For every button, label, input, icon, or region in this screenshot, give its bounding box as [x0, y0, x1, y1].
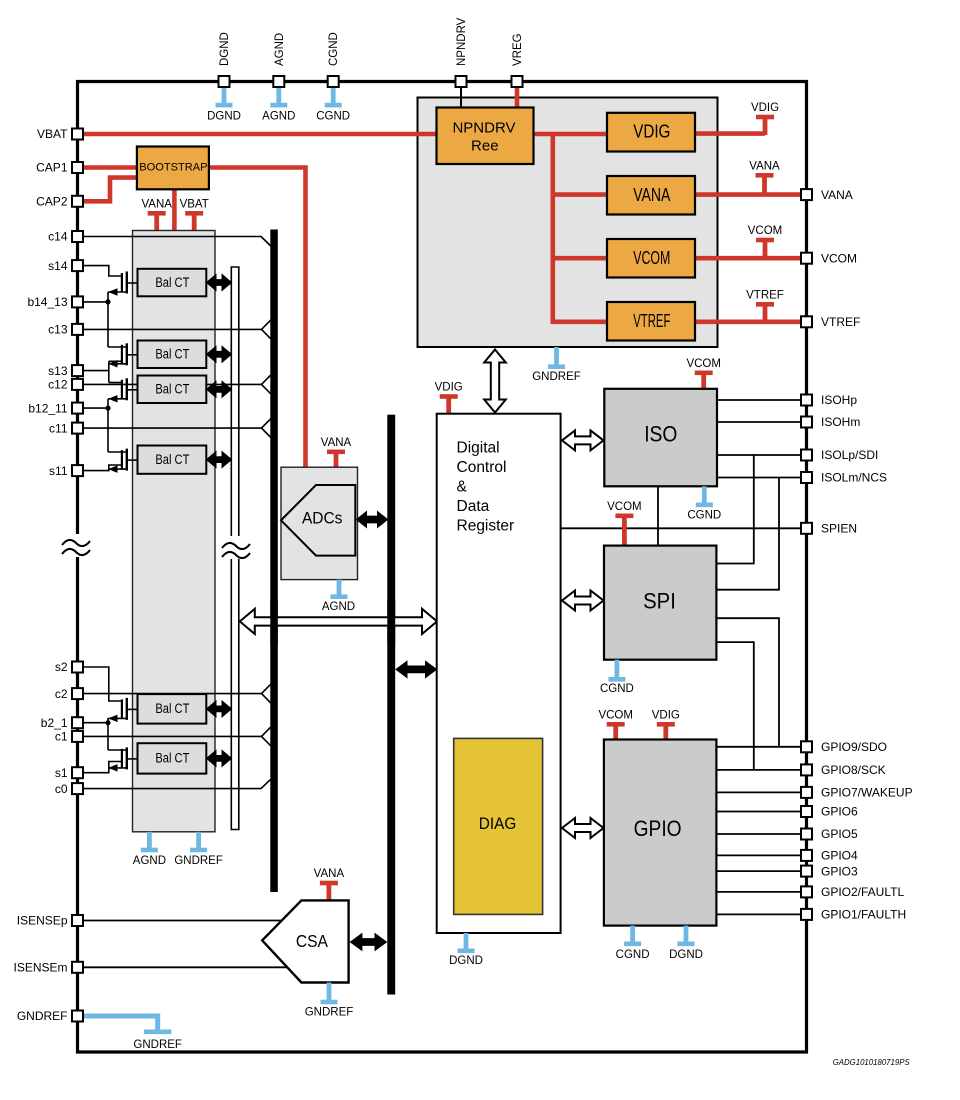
wire GPIO to GPIO9/SDO	[716, 746, 802, 748]
svg-text:DIAG: DIAG	[479, 815, 517, 833]
supply VANA rail symbol	[756, 173, 774, 196]
wire ISOLm/NCS to SPI	[717, 478, 779, 590]
mux column rectangle	[231, 267, 239, 830]
svg-text:ISENSEm: ISENSEm	[13, 961, 67, 975]
pin s14 (left)	[72, 260, 83, 271]
svg-text:DGND: DGND	[219, 32, 231, 66]
wire c11 to bus	[84, 427, 262, 429]
wire SPIEN to digital control	[561, 527, 802, 529]
block CSA	[262, 900, 348, 982]
digital bus bar over arrow	[387, 600, 395, 645]
ground AGND below cell block	[141, 832, 158, 853]
svg-text:Bal CT: Bal CT	[155, 701, 189, 716]
svg-text:DGND: DGND	[207, 111, 241, 123]
svg-text:VCOM: VCOM	[633, 248, 670, 268]
wire trunk branch to VTREF regulator	[551, 319, 608, 324]
wire SPI to GPIO8/SCK	[716, 642, 753, 770]
pin s1 (left)	[72, 767, 83, 778]
pin CGND (top)	[328, 76, 339, 87]
wire GPIO to GPIO4	[716, 854, 802, 856]
wire ISO to ISOHp	[717, 399, 802, 401]
svg-text:VREG: VREG	[512, 33, 524, 66]
block ISO	[604, 389, 717, 487]
pin VTREF (right)	[801, 316, 812, 327]
svg-text:c12: c12	[48, 378, 68, 392]
svg-text:GPIO6: GPIO6	[821, 805, 858, 819]
ground CGND below GPIO	[624, 926, 641, 947]
pin GPIO4 (right)	[801, 850, 812, 861]
wire s11 to Q4 gate	[84, 465, 122, 471]
arrow regulator to digital control	[484, 350, 506, 413]
wire b12_11 to Q4	[108, 451, 127, 453]
svg-text:ISOHm: ISOHm	[821, 415, 860, 429]
wire GPIO to GPIO2/FAULTL	[716, 891, 802, 893]
regulator VANA	[607, 176, 695, 215]
supply VCOM rail symbol	[756, 238, 774, 260]
wire VTREF regulator to VTREF pin	[695, 319, 802, 324]
svg-text:NPNDRV: NPNDRV	[452, 119, 515, 136]
pin GPIO2/FAULTL (right)	[801, 886, 812, 897]
svg-text:AGND: AGND	[322, 601, 355, 613]
supply VDIG at GPIO	[657, 722, 675, 741]
transistor Q4	[121, 450, 123, 469]
svg-text:NPNDRV: NPNDRV	[456, 17, 468, 66]
wire VDIG regulator to VDIG rail	[695, 131, 765, 136]
svg-text:VANA: VANA	[141, 199, 172, 211]
wire s2 to Q5 gate	[84, 667, 122, 701]
transistor Q2	[121, 345, 123, 364]
svg-text:Digital: Digital	[457, 440, 500, 457]
pin ISENSEm (left)	[72, 962, 83, 973]
wire GPIO to GPIO8/SCK	[716, 769, 802, 771]
svg-text:GPIO1/FAULTH: GPIO1/FAULTH	[821, 908, 906, 922]
svg-text:b2_1: b2_1	[41, 716, 68, 730]
svg-text:VCOM: VCOM	[748, 225, 783, 237]
svg-text:ISOLm/NCS: ISOLm/NCS	[821, 471, 887, 485]
svg-text:ADCs: ADCs	[302, 509, 343, 528]
pin s2 (left)	[72, 662, 83, 673]
transistor Q5	[121, 699, 123, 718]
wire VBAT rail from VBAT pin to NPNDRV	[84, 132, 437, 137]
supply VTREF rail symbol	[756, 302, 774, 324]
wire ISO to ISOLp/SDI	[717, 454, 802, 456]
pin CAP2 (left)	[72, 196, 83, 207]
supply VCOM at SPI	[615, 514, 633, 548]
wire c14 to bus	[84, 236, 262, 238]
svg-text:CAP1: CAP1	[36, 161, 68, 175]
pin ISOLp/SDI (right)	[801, 450, 812, 461]
pin b12_11 (left)	[72, 403, 83, 414]
svg-text:GPIO8/SCK: GPIO8/SCK	[821, 763, 886, 777]
ground CGND below top pin	[325, 88, 342, 107]
wire trunk branch to VCOM regulator	[551, 256, 608, 261]
svg-text:CGND: CGND	[687, 510, 721, 522]
pin s13 (left)	[72, 365, 83, 376]
ground DGND below digital control	[458, 933, 475, 953]
analog bus bar	[270, 230, 278, 893]
svg-text:s1: s1	[55, 766, 68, 780]
svg-text:VANA: VANA	[821, 188, 853, 202]
wire GPIO to GPIO5	[716, 833, 802, 835]
wire c13 to bus	[84, 328, 262, 330]
wire b14_13 to Q2	[108, 346, 127, 348]
svg-text:s14: s14	[48, 259, 68, 273]
pin ISOLm/NCS (right)	[801, 472, 812, 483]
svg-text:AGND: AGND	[274, 33, 286, 66]
supply VDIG at digital control	[440, 394, 458, 415]
pin c0 (left)	[72, 783, 83, 794]
arrow digital control to ISO	[562, 430, 604, 450]
cell block supply VBAT	[185, 211, 203, 232]
pin c13 (left)	[72, 324, 83, 335]
wire b12_11 junction	[84, 407, 108, 409]
wire CAP1 to BOOTSTRAP	[84, 165, 137, 170]
digital bus bar	[387, 415, 395, 995]
pin ISENSEp (left)	[72, 915, 83, 926]
wire ISO to ISOLm/NCS	[717, 477, 802, 479]
ground GNDREF below regulator block	[548, 347, 565, 369]
pin GPIO9/SDO (right)	[801, 741, 812, 752]
svg-text:VANA: VANA	[321, 437, 352, 449]
wire b14_13 junction	[84, 301, 108, 303]
svg-text:Register: Register	[457, 518, 515, 535]
pin DGND (top)	[219, 76, 230, 87]
transistor Q3	[121, 380, 123, 399]
pin c1 (left)	[72, 731, 83, 742]
ground CGND below ISO	[696, 486, 713, 507]
wire NPNDRV output to VDIG regulator	[533, 132, 607, 137]
svg-text:VTREF: VTREF	[746, 290, 784, 302]
wire c1 to bus	[84, 735, 262, 737]
svg-text:GNDREF: GNDREF	[174, 855, 223, 867]
svg-text:GNDREF: GNDREF	[17, 1009, 68, 1023]
svg-text:c1: c1	[55, 730, 68, 744]
svg-text:VDIG: VDIG	[633, 122, 670, 142]
wire s1 to Q6 gate	[84, 762, 122, 773]
svg-text:SPI: SPI	[643, 589, 676, 614]
pin CAP1 (left)	[72, 162, 83, 173]
svg-text:GNDREF: GNDREF	[305, 1007, 354, 1019]
svg-text:VANA: VANA	[314, 868, 345, 880]
pin c14 (left)	[72, 231, 83, 242]
wire ISO to SPI vertical	[657, 486, 659, 546]
svg-text:ISOLp/SDI: ISOLp/SDI	[821, 448, 878, 462]
arrow digital bus to digital control block	[396, 661, 437, 677]
svg-text:CGND: CGND	[616, 949, 650, 961]
svg-text:GNDREF: GNDREF	[532, 371, 581, 383]
svg-text:VANA: VANA	[633, 185, 670, 205]
svg-text:GPIO: GPIO	[634, 816, 682, 841]
svg-text:Bal CT: Bal CT	[155, 452, 189, 467]
svg-text:DGND: DGND	[449, 955, 483, 967]
wire ISOLp/SDI to SPI	[717, 455, 754, 564]
Bal CT row 2	[138, 341, 207, 369]
supply VANA at ADCs	[327, 450, 345, 469]
pin GPIO1/FAULTH (right)	[801, 909, 812, 920]
svg-text:VBAT: VBAT	[180, 199, 209, 211]
svg-text:Bal CT: Bal CT	[155, 382, 189, 397]
regulator VCOM	[607, 239, 695, 278]
pin GPIO8/SCK (right)	[801, 764, 812, 775]
pin s11 (left)	[72, 465, 83, 476]
arrow digital control to SPI	[562, 591, 604, 611]
Bal CT row 3	[138, 376, 207, 404]
pin VCOM (right)	[801, 253, 812, 264]
break symbol on mux column	[222, 543, 250, 558]
wire GPIO to GPIO3	[716, 870, 802, 872]
svg-text:s13: s13	[48, 364, 68, 378]
ground AGND below ADCs	[331, 580, 348, 599]
wire BOOTSTRAP to cell block VBAT	[172, 188, 177, 231]
supply VANA at CSA	[320, 881, 338, 901]
transistor Q6	[121, 749, 123, 768]
wire ISENSEp to CSA	[84, 920, 282, 922]
svg-text:GPIO9/SDO: GPIO9/SDO	[821, 740, 887, 754]
svg-text:CGND: CGND	[328, 32, 340, 66]
svg-text:ISOHp: ISOHp	[821, 393, 857, 407]
arrow Bal CT row 3 to mux	[207, 381, 232, 397]
pin GNDREF (left)	[72, 1011, 83, 1022]
break symbol on left boundary	[62, 540, 90, 555]
pin GPIO3 (right)	[801, 866, 812, 877]
svg-text:DGND: DGND	[669, 949, 703, 961]
pin b14_13 (left)	[72, 296, 83, 307]
arrow ADCs to digital bus	[357, 512, 388, 528]
pin GPIO7/WAKEUP (right)	[801, 787, 812, 798]
regulator VTREF	[607, 302, 695, 341]
svg-text:s2: s2	[55, 660, 68, 674]
pin c2 (left)	[72, 688, 83, 699]
wire VCOM regulator to VCOM pin	[695, 256, 802, 261]
wire ISO to ISOHm	[717, 421, 802, 423]
block Digital Control and Data Register	[437, 414, 561, 933]
svg-text:GPIO2/FAULTL: GPIO2/FAULTL	[821, 885, 904, 899]
wire s14 to Q1 gate	[84, 266, 122, 276]
cell block supply VANA	[148, 211, 166, 232]
supply VCOM at GPIO	[607, 722, 625, 741]
wire c2 to bus	[84, 693, 262, 695]
svg-text:VCOM: VCOM	[607, 501, 642, 513]
svg-text:VDIG: VDIG	[652, 710, 680, 722]
svg-text:Control: Control	[457, 459, 507, 476]
wire CAP2 to BOOTSTRAP	[84, 178, 137, 202]
svg-text:VBAT: VBAT	[37, 127, 68, 141]
wire BOOTSTRAP to ADC supply	[208, 168, 306, 469]
svg-text:VCOM: VCOM	[686, 358, 721, 370]
svg-text:AGND: AGND	[262, 111, 295, 123]
wire NPNDRV pin into NPNDRV	[460, 85, 462, 110]
pin ISOHm (right)	[801, 417, 812, 428]
wire s13 to Q2 gate	[84, 361, 122, 382]
svg-text:VANA: VANA	[749, 161, 780, 173]
svg-text:CSA: CSA	[296, 931, 328, 951]
arrow Bal CT row 5 to mux	[207, 701, 232, 717]
arrow Bal CT row 2 to mux	[207, 346, 232, 362]
svg-text:GPIO5: GPIO5	[821, 827, 858, 841]
svg-text:GADG1010180719PS: GADG1010180719PS	[833, 1057, 910, 1067]
Bal CT row 5	[138, 694, 207, 724]
ground DGND below top pin	[216, 88, 233, 107]
wire VANA regulator to VANA pin	[695, 192, 802, 197]
wire b2_1 to Q6	[108, 749, 127, 751]
svg-text:GPIO7/WAKEUP: GPIO7/WAKEUP	[821, 786, 913, 800]
svg-text:VCOM: VCOM	[821, 251, 857, 265]
arrow Bal CT row 1 to mux	[207, 275, 232, 291]
block SPI	[604, 546, 716, 660]
ground DGND below GPIO	[678, 926, 695, 947]
pin ISOHp (right)	[801, 395, 812, 406]
pin SPIEN (right)	[801, 523, 812, 534]
arrow Bal CT row 6 to mux	[207, 750, 232, 766]
svg-text:CGND: CGND	[600, 683, 634, 695]
wire s13 to Q3 gate	[109, 382, 122, 384]
svg-text:GNDREF: GNDREF	[133, 1039, 182, 1051]
svg-text:Bal CT: Bal CT	[155, 275, 189, 290]
arrow CSA to digital bus	[350, 934, 386, 951]
wire ISENSEm to CSA	[84, 966, 288, 968]
wire SPI to GPIO9/SDO	[716, 618, 779, 747]
supply VCOM at ISO	[695, 371, 713, 391]
svg-text:BOOTSTRAP: BOOTSTRAP	[139, 162, 207, 174]
svg-text:GPIO3: GPIO3	[821, 864, 858, 878]
pin b2_1 (left)	[72, 717, 83, 728]
svg-text:Ree: Ree	[471, 137, 499, 154]
Bal CT row 1	[138, 269, 207, 297]
pin GPIO6 (right)	[801, 806, 812, 817]
wire GPIO to GPIO7/WAKEUP	[716, 791, 802, 793]
Bal CT row 4	[138, 446, 207, 474]
wire c0 to bus	[84, 788, 262, 790]
pin c12 (left)	[72, 379, 83, 390]
pin AGND (top)	[273, 76, 284, 87]
svg-text:Bal CT: Bal CT	[155, 347, 189, 362]
pin VANA (right)	[801, 189, 812, 200]
cell measurement block	[133, 231, 216, 832]
svg-text:ISENSEp: ISENSEp	[17, 914, 68, 928]
analog bus bar over arrow	[270, 600, 278, 645]
svg-text:b14_13: b14_13	[27, 295, 67, 309]
svg-text:c11: c11	[49, 421, 68, 435]
wire GPIO to GPIO1/FAULTH	[716, 913, 802, 915]
block BOOTSTRAP	[137, 147, 209, 190]
wire VREG pin into NPNDRV	[515, 85, 520, 110]
svg-text:VCOM: VCOM	[598, 710, 633, 722]
svg-text:Bal CT: Bal CT	[155, 751, 189, 766]
Bal CT row 6	[138, 743, 207, 773]
svg-text:&: &	[457, 479, 468, 496]
svg-text:VTREF: VTREF	[821, 315, 860, 329]
block DIAG	[454, 738, 543, 914]
svg-text:CAP2: CAP2	[36, 195, 68, 209]
svg-text:ISO: ISO	[644, 422, 677, 447]
ground GNDREF below CSA	[321, 983, 338, 1005]
svg-text:c14: c14	[48, 230, 68, 244]
supply VDIG rail symbol	[756, 115, 774, 135]
regulator VDIG	[607, 113, 695, 152]
wire GPIO to GPIO6	[716, 811, 802, 813]
ground AGND below top pin	[270, 88, 287, 107]
pin VREG (top)	[512, 76, 523, 87]
svg-text:SPIEN: SPIEN	[821, 522, 857, 536]
svg-text:c0: c0	[55, 782, 68, 796]
pin VBAT (left)	[72, 129, 83, 140]
svg-text:VDIG: VDIG	[435, 382, 463, 394]
pin c11 (left)	[72, 423, 83, 434]
ground CGND below SPI	[608, 660, 625, 682]
outer chip boundary	[78, 82, 807, 1053]
arrow Bal CT row 4 to mux	[207, 452, 232, 468]
wire c12 to bus	[84, 383, 262, 385]
svg-text:c13: c13	[48, 323, 68, 337]
svg-text:AGND: AGND	[133, 855, 166, 867]
svg-text:GPIO4: GPIO4	[821, 849, 858, 863]
svg-text:s11: s11	[49, 464, 68, 478]
svg-text:VDIG: VDIG	[751, 102, 779, 114]
transistor Q1	[121, 273, 123, 292]
svg-text:b12_11: b12_11	[28, 401, 67, 415]
wire regulator trunk vertical	[550, 134, 555, 322]
block GPIO	[604, 740, 717, 926]
regulator block (top gray region)	[418, 98, 718, 348]
wire trunk branch to VANA regulator	[551, 192, 608, 197]
arrow DIAG to GPIO	[562, 818, 604, 838]
wire GNDREF pin blue	[84, 1016, 158, 1030]
svg-text:Data: Data	[457, 498, 490, 515]
regulator NPNDRV Ree	[437, 108, 534, 165]
block ADCs	[281, 467, 358, 579]
arrow analog bus to digital block (AGND bus)	[240, 609, 437, 634]
svg-text:VTREF: VTREF	[633, 311, 670, 331]
svg-text:c2: c2	[55, 687, 68, 701]
pin GPIO5 (right)	[801, 829, 812, 840]
pin NPNDRV (top)	[456, 76, 467, 87]
svg-text:CGND: CGND	[316, 111, 350, 123]
wire b2_1 junction	[84, 722, 108, 724]
ground GNDREF below cell block	[190, 832, 207, 853]
